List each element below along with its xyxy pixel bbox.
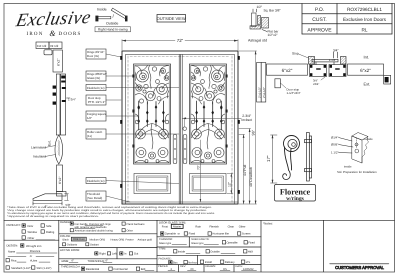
svg-text:Install: Install	[205, 261, 212, 264]
hinge marks	[120, 56, 240, 194]
svg-text:Plank hardware: Plank hardware	[127, 223, 146, 226]
svg-text:Other: Other	[127, 230, 134, 233]
svg-text:Wrought iron: Wrought iron	[26, 245, 42, 248]
svg-text:or: or	[178, 233, 180, 236]
svg-text:P.O.: P.O.	[315, 7, 324, 13]
svg-text:Screen: Screen	[242, 233, 251, 236]
door meeting stiles plan	[309, 57, 347, 77]
svg-text:72": 72"	[177, 38, 184, 43]
svg-text:96": 96"	[252, 129, 256, 135]
svg-text:2"x1-1/2": 2"x1-1/2"	[258, 87, 261, 98]
dim 48 deadbolt	[239, 129, 253, 204]
svg-text:Flushbolt (1x): Flushbolt (1x)	[87, 179, 105, 183]
svg-text:Left: Left	[112, 253, 117, 256]
handle left	[173, 135, 177, 164]
svg-text:Outside: Outside	[210, 251, 220, 254]
1-3/4 dim	[67, 97, 71, 99]
threshold wedge	[33, 194, 62, 201]
svg-text:Fixed: Fixed	[189, 233, 196, 236]
svg-text:APPROVE: APPROVE	[307, 27, 332, 33]
door outer frame	[122, 51, 238, 204]
frame dashed lines	[127, 56, 129, 202]
svg-text:Insulated: Insulated	[33, 155, 46, 159]
svg-text:CUST.: CUST.	[312, 17, 326, 23]
svg-text:1-1/4": 1-1/4"	[329, 58, 336, 62]
svg-text:Right Hand In-swing: Right Hand In-swing	[98, 28, 128, 32]
svg-text:Standard (1-1/2"): Standard (1-1/2")	[11, 267, 32, 270]
hinge bracket right	[384, 75, 391, 84]
title block	[302, 4, 392, 35]
svg-text:Frost: Frost	[162, 226, 168, 229]
svg-text:TRANSOM:: TRANSOM:	[159, 238, 173, 241]
svg-text:No-box: No-box	[188, 262, 197, 265]
handle side view	[307, 133, 310, 182]
svg-text:or: or	[30, 255, 32, 258]
hinge hardware	[53, 76, 66, 105]
door stile tubes	[56, 74, 60, 135]
svg-text:Outside: Outside	[106, 22, 118, 26]
lower tube	[57, 165, 63, 192]
glass lens	[55, 135, 63, 164]
head jamb tube	[53, 50, 63, 72]
svg-text:44"Pull: 44"Pull	[243, 165, 247, 176]
svg-text:PACKAGE:: PACKAGE:	[159, 258, 172, 261]
svg-text:6"x2": 6"x2"	[56, 59, 60, 66]
svg-text:Inside: Inside	[97, 8, 107, 12]
svg-text:Other: Other	[28, 237, 35, 240]
door stop under left jamb	[275, 79, 281, 88]
svg-text:Ø1/4": Ø1/4"	[331, 136, 338, 140]
svg-text:Std. Preparation for Installat: Std. Preparation for Installation	[337, 170, 377, 174]
svg-text:(See Detail): (See Detail)	[87, 196, 102, 200]
svg-text:Operable: Operable	[165, 233, 177, 236]
lockset dim	[183, 114, 253, 127]
svg-text:Clear: Clear	[228, 226, 235, 229]
svg-text:RL: RL	[362, 27, 368, 32]
svg-text:1/2": 1/2"	[87, 116, 92, 120]
callout forging square	[86, 111, 106, 121]
disclaimers	[7, 206, 215, 218]
svg-text:Railing: Railing	[46, 231, 55, 234]
svg-text:1/2"x2": 1/2"x2"	[268, 33, 278, 37]
callout flushbolt top	[86, 85, 106, 91]
svg-text:CUSTOMERS APPROVAL: CUSTOMERS APPROVAL	[335, 265, 384, 270]
svg-text:x3/4": x3/4"	[313, 82, 319, 86]
svg-text:70": 70"	[197, 165, 201, 170]
svg-text:ORB Rust: ORB Rust	[73, 238, 85, 241]
svg-text:American standard double borin: American standard double boring	[75, 229, 114, 232]
highlighted glass option	[171, 224, 183, 228]
svg-text:Name: Name	[8, 250, 16, 253]
svg-text:1-3/4": 1-3/4"	[68, 98, 76, 102]
callout threshold	[86, 191, 106, 201]
handle right	[183, 135, 187, 164]
svg-text:Pewter: Pewter	[126, 238, 134, 241]
callout hinge door	[86, 49, 106, 59]
svg-text:Int.: Int.	[364, 55, 370, 60]
svg-text:Master: Master	[173, 226, 181, 229]
svg-text:Other: Other	[239, 226, 246, 229]
svg-text:Astragal std: Astragal std	[248, 39, 267, 43]
svg-text:ROX7296CLBL1: ROX7296CLBL1	[347, 7, 382, 12]
outside view box	[157, 15, 186, 23]
svg-text:PIECES:: PIECES:	[158, 265, 169, 268]
glass panel right	[190, 64, 227, 164]
svg-text:PTR. 1/2"x 2": PTR. 1/2"x 2"	[88, 100, 105, 104]
svg-text:In: In	[124, 253, 127, 256]
svg-text:Operable: Operable	[227, 242, 239, 245]
logo Exclusive Iron Doors	[13, 8, 93, 38]
svg-text:Ext.: Ext.	[364, 82, 371, 87]
svg-text:inside: inside	[344, 165, 352, 169]
svg-text:REV:: REV:	[180, 265, 186, 268]
svg-text:Florence: Florence	[30, 250, 41, 253]
svg-text:&: &	[49, 29, 56, 38]
head box	[44, 50, 52, 55]
svg-text:1-1/4"x3/4": 1-1/4"x3/4"	[287, 91, 301, 95]
dimension 72" top	[122, 38, 238, 50]
svg-text:3/4": 3/4"	[333, 49, 339, 53]
svg-text:6"x2": 6"x2"	[360, 68, 371, 73]
svg-text:w/rings: w/rings	[286, 196, 305, 202]
svg-text:PRODUCT:: PRODUCT:	[7, 223, 22, 227]
dim 17"	[272, 135, 274, 183]
bottom panel right	[190, 174, 227, 194]
svg-text:Flemish: Flemish	[209, 226, 219, 229]
svg-text:JAMB:: JAMB:	[61, 260, 69, 263]
svg-text:Florence: Florence	[280, 187, 311, 196]
highlighted color option	[71, 237, 86, 241]
svg-text:Door (3x): Door (3x)	[87, 54, 99, 58]
svg-text:2"x1-1/2": 2"x1-1/2"	[263, 87, 266, 98]
svg-text:TRIM:: TRIM:	[159, 248, 166, 251]
svg-text:Int 1/2: Int 1/2	[50, 44, 59, 48]
customers approval	[330, 264, 389, 270]
florence label box	[275, 185, 316, 202]
ironwork left leaf	[135, 66, 169, 163]
svg-text:THRESHOLD:#: THRESHOLD:#	[61, 265, 80, 268]
svg-text:Door: Door	[28, 225, 34, 228]
top label boxes	[36, 42, 49, 49]
left cross-section	[31, 42, 76, 209]
svg-text:#Lites: #Lites	[30, 259, 38, 262]
svg-text:ACTIVE DOOR:: ACTIVE DOOR:	[60, 248, 80, 252]
svg-text:Medium ORB: Medium ORB	[90, 238, 106, 241]
glass hinge marks	[132, 75, 227, 148]
callout roller catch	[86, 129, 106, 139]
svg-text:Delivery: Delivery	[225, 261, 235, 264]
svg-text:48"Deadbolt: 48"Deadbolt	[249, 167, 253, 187]
svg-text:Laminated: Laminated	[31, 146, 46, 150]
svg-text:Commercial: Commercial	[113, 268, 128, 271]
svg-text:Exclusive Iron Doors: Exclusive Iron Doors	[343, 17, 387, 22]
deadbolt	[183, 127, 186, 130]
svg-text:12": 12"	[228, 181, 232, 187]
form grid	[4, 219, 395, 221]
svg-text:HdX: HdX	[248, 251, 253, 254]
right plan section	[257, 49, 391, 103]
svg-text:OUTSIDE VIEW: OUTSIDE VIEW	[157, 16, 186, 21]
svg-text:Side: Side	[46, 225, 52, 228]
form checkboxes	[6, 222, 247, 271]
door elevation	[120, 38, 256, 204]
dim center leaf	[197, 140, 202, 202]
swing diagram	[95, 8, 131, 32]
svg-text:IRON: IRON	[26, 31, 43, 37]
svg-text:DRAWN:: DRAWN:	[206, 265, 217, 268]
handle front view scroll	[284, 136, 300, 152]
svg-text:Glass type: Glass type	[191, 242, 204, 245]
svg-text:Window: Window	[28, 231, 38, 234]
svg-text:SHED LIGHTS:: SHED LIGHTS:	[191, 238, 209, 241]
left jamb tube 6x2	[267, 64, 308, 75]
svg-text:lockset: lockset	[242, 118, 253, 122]
prep detail	[331, 133, 377, 175]
callout flushbolt bottom	[86, 178, 106, 184]
svg-text:Oxidante: Oxidante	[67, 244, 78, 247]
svg-text:Slim (1-1/4"): Slim (1-1/4")	[37, 267, 52, 270]
glass panel left	[134, 64, 171, 164]
svg-text:1 1/2": 1 1/2"	[331, 151, 338, 155]
svg-text:LTL: LTL	[246, 261, 251, 264]
dim 96	[239, 51, 257, 204]
svg-text:17": 17"	[266, 155, 271, 162]
svg-text:Heavy ORB: Heavy ORB	[111, 238, 125, 241]
dim 44 pull	[239, 135, 247, 205]
svg-text:Black: Black	[63, 238, 70, 241]
sill line	[122, 201, 238, 203]
svg-text:Residential: Residential	[86, 268, 100, 271]
handle detail	[266, 133, 316, 203]
svg-text:1/2": 1/2"	[257, 5, 263, 9]
svg-text:Out: Out	[134, 253, 139, 256]
svg-text:DESIGN:: DESIGN:	[7, 244, 19, 248]
svg-text:6"x2": 6"x2"	[282, 68, 293, 73]
svg-text:Right: Right	[99, 253, 106, 256]
bottom panel left	[134, 174, 171, 194]
svg-text:Sq. Bar 3/8": Sq. Bar 3/8"	[264, 9, 281, 13]
right jamb tube 6x2	[348, 64, 384, 75]
svg-text:Stop: Stop	[292, 52, 299, 56]
svg-text:6"x2": 6"x2"	[58, 177, 62, 184]
svg-text:(1x): (1x)	[87, 134, 92, 138]
svg-text:Rain: Rain	[195, 226, 201, 229]
svg-text:Glass type: Glass type	[159, 242, 172, 245]
svg-text:Ext 1/2: Ext 1/2	[37, 44, 47, 48]
astragal center	[179, 55, 182, 205]
svg-text:Riva: Riva	[11, 259, 17, 262]
svg-text:Hurricane film: Hurricane film	[212, 233, 229, 236]
svg-text:*Notes:: *Notes:	[263, 222, 273, 226]
bottom form	[4, 220, 395, 272]
svg-text:Flushbolt (1x): Flushbolt (1x)	[87, 86, 105, 90]
form underlines	[8, 226, 257, 271]
ironwork right leaf	[191, 66, 225, 163]
svg-text:Inside: Inside	[178, 251, 186, 254]
astragal bar plan	[312, 59, 338, 62]
svg-text:Box: Box	[173, 262, 178, 265]
astragal detail	[248, 5, 281, 43]
svg-text:THRESHOLD:: THRESHOLD:	[88, 260, 106, 263]
svg-text:outside: outside	[364, 137, 374, 141]
svg-text:Sealant: Sealant	[90, 244, 99, 247]
svg-text:Glass (3x): Glass (3x)	[87, 76, 100, 80]
svg-text:Fixed: Fixed	[248, 242, 255, 245]
svg-text:Ø5/8": Ø5/8"	[331, 143, 338, 147]
svg-text:Exclusive: Exclusive	[13, 8, 93, 31]
left callouts	[86, 49, 179, 202]
dim 12 panel	[227, 174, 233, 194]
svg-text:*Approval of drawing is requir: *Approval of drawing is required to star…	[7, 215, 100, 218]
svg-text:DOOR GLASS TYPE:: DOOR GLASS TYPE:	[159, 221, 187, 225]
callout hinge glass	[86, 71, 106, 81]
jamb label boxes left	[257, 63, 262, 103]
callout door stop	[86, 95, 106, 105]
svg-text:DOORS: DOORS	[59, 31, 82, 37]
svg-text:Ext.: Ext.	[48, 140, 52, 146]
svg-text:Antique gold: Antique gold	[138, 238, 153, 241]
dim 3/4 top	[333, 52, 335, 58]
